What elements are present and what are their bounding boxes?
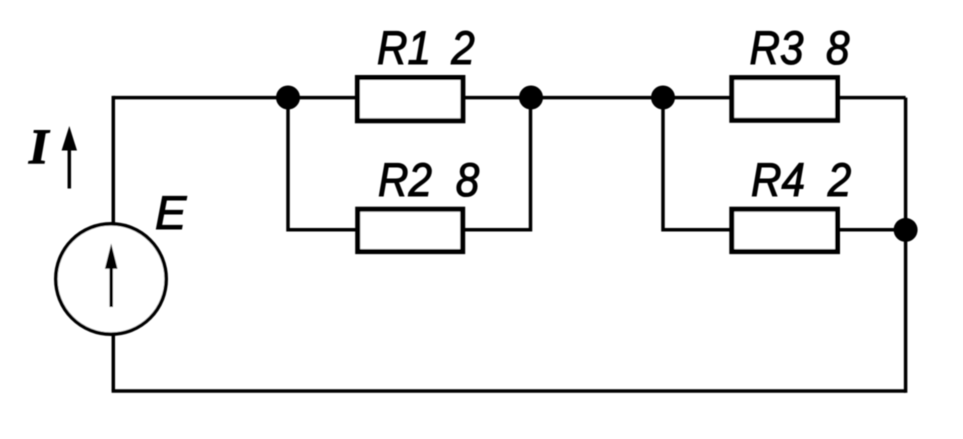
wire bottom horizontal (112, 389, 906, 393)
node C junction dot (651, 86, 675, 110)
resistor R2 (358, 209, 463, 251)
svg-text:E: E (155, 186, 187, 239)
current I arrow stem (68, 150, 72, 189)
wire left vertical upper (112, 96, 116, 224)
wire left vertical lower (112, 335, 116, 392)
wire R2 to node B riser (460, 98, 531, 230)
source E circle (56, 224, 166, 334)
wire node C down to R4 row (663, 98, 734, 230)
current I arrow head (62, 126, 77, 151)
resistor R4 (732, 209, 838, 251)
wire top horizontal (113, 96, 905, 100)
svg-text:2: 2 (450, 21, 474, 74)
wire right vertical (904, 98, 908, 393)
node B junction dot (519, 86, 543, 110)
svg-text:I: I (28, 118, 50, 174)
svg-text:R2: R2 (378, 153, 432, 206)
svg-text:R3: R3 (750, 21, 804, 74)
svg-text:R4: R4 (751, 153, 805, 206)
resistor R3 (732, 78, 838, 121)
wire R4 to node D (835, 228, 906, 232)
node A junction dot (276, 86, 300, 110)
node D junction dot (894, 218, 918, 242)
svg-text:8: 8 (826, 21, 850, 74)
svg-text:2: 2 (827, 153, 851, 206)
resistor R1 (357, 78, 463, 121)
svg-text:R1: R1 (377, 21, 431, 74)
wire node A down to R2 row (288, 98, 360, 230)
source E arrow head (105, 244, 118, 269)
svg-text:8: 8 (456, 153, 480, 206)
source E arrow stem (109, 264, 113, 307)
